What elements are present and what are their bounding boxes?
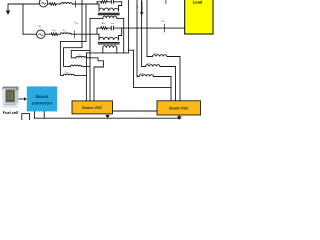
- wire left vertical: [22, 4, 24, 34]
- shunt inductor E: [146, 65, 160, 67]
- svg-text:Vt,s: Vt,s: [75, 22, 79, 25]
- resistor bypass row1 (cropped): [101, 1, 108, 4]
- Boost converter block: [27, 86, 57, 111]
- wire: [56, 3, 61, 5]
- transformer T2 secondary: [86, 46, 128, 53]
- wire boost output right: [43, 111, 45, 118]
- svg-text:Lsh: Lsh: [65, 71, 68, 74]
- svg-text:Rse: Rse: [102, 22, 106, 25]
- shunt inductor C: [63, 74, 74, 75]
- arrow fuel cell to boost: [19, 97, 27, 101]
- shunt inductor A: [76, 56, 87, 57]
- capacitor bypass row1 plates (cropped): [110, 0, 112, 3]
- tap row1 to inductor B: [64, 0, 83, 66]
- resistor Rs row2: [51, 33, 58, 36]
- wire row2: [45, 33, 51, 35]
- tap row2 to inductor C: [60, 4, 86, 75]
- Load block: [185, 0, 213, 34]
- bus vertical from row1 x127.5 to T2 secondary row: [128, 0, 130, 53]
- wire C to vertical: [74, 74, 86, 76]
- transformer T2 primary: [99, 28, 122, 40]
- cropped controller box bottom-left: [22, 114, 30, 122]
- svg-text:Lsh: Lsh: [154, 52, 157, 55]
- svg-text:Vs: Vs: [39, 25, 42, 28]
- svg-text:Ls: Ls: [63, 29, 65, 32]
- wire D to Shunt VSC: [167, 57, 180, 101]
- svg-text:Lsh: Lsh: [141, 72, 144, 75]
- resistor Rse bypass row2: [101, 27, 108, 30]
- wire F to Shunt VSC: [153, 77, 171, 101]
- wire: [107, 27, 111, 29]
- bus vertical x141.6 to inductor E: [142, 0, 146, 67]
- inductor Ls row2: [60, 33, 71, 34]
- bus vertical x136.6 to inductor F: [137, 0, 139, 77]
- ground: [6, 4, 11, 15]
- svg-text:Lsh: Lsh: [147, 62, 150, 65]
- wire E to Shunt VSC: [160, 67, 176, 101]
- arrow into DC line under Series VSC: [105, 115, 109, 119]
- wire boost output left: [33, 111, 35, 118]
- Shunt VSC block: [157, 101, 201, 115]
- resistor R row1: [50, 3, 57, 6]
- node tick Vt row1: [75, 1, 77, 7]
- shunt neutral wire from bus: [129, 50, 171, 87]
- wire: [107, 1, 111, 3]
- wire T2 left drop to Series VSC: [85, 53, 87, 101]
- svg-text:Load: Load: [193, 0, 203, 4]
- DC link bottom line: [34, 117, 181, 119]
- Fuel cell photo: [3, 87, 19, 109]
- bypass corner row1: [96, 2, 98, 4]
- wire top-left horizontal: [8, 3, 39, 5]
- wire B to vertical: [81, 65, 90, 67]
- wire row1 to transformer: [72, 3, 99, 5]
- current arrow iL: [141, 2, 143, 13]
- wire A to Series VSC: [87, 58, 104, 101]
- wire to staircase: [113, 1, 121, 3]
- svg-text:Shunt VSC: Shunt VSC: [169, 107, 189, 111]
- svg-text:Boost: Boost: [36, 94, 49, 99]
- DC link between VSCs: [113, 110, 158, 112]
- bypass wire row1: [97, 1, 101, 3]
- bypass wire row2: [97, 27, 101, 29]
- bus vertical x146.4 to inductor D: [147, 0, 153, 57]
- wire to source 2: [23, 33, 37, 35]
- wire: [58, 33, 61, 35]
- transformer T1 primary: [99, 2, 122, 11]
- svg-text:Series VSC: Series VSC: [82, 106, 103, 110]
- svg-text:Fuel cell: Fuel cell: [3, 110, 19, 115]
- source V2 Vs: [37, 30, 45, 38]
- wire T1 left drop to Series VSC: [89, 18, 91, 101]
- node tick VtL: [163, 24, 165, 32]
- inductor L row1: [61, 3, 72, 4]
- node tick Vts row2: [73, 31, 75, 38]
- wire row2 to transformer: [71, 33, 99, 35]
- Series VSC block: [72, 101, 113, 114]
- wire row2 output line to load: [113, 27, 184, 29]
- svg-text:converter: converter: [32, 101, 53, 106]
- tap to inductor A: [71, 50, 90, 57]
- node tick row1 near load: [165, 0, 167, 4]
- capacitor Cse bypass row2 plates: [110, 26, 112, 30]
- shunt inductor D: [153, 55, 167, 57]
- shunt inductor F: [139, 75, 153, 77]
- arrow under Shunt VSC: [177, 115, 181, 120]
- svg-text:Rs: Rs: [53, 29, 56, 32]
- svg-text:Cse: Cse: [111, 22, 115, 25]
- bypass corner row2: [96, 28, 98, 34]
- transformer T1 secondary: [90, 16, 124, 18]
- transformer T1 core: [98, 13, 119, 14]
- svg-text:Lsh: Lsh: [78, 53, 81, 56]
- source V1 (top, cropped): [39, 0, 47, 7]
- shunt inductor B: [70, 65, 81, 66]
- transformer T2 core: [98, 43, 119, 44]
- wire row1: [48, 3, 50, 5]
- wire T1 right drop: [123, 18, 125, 53]
